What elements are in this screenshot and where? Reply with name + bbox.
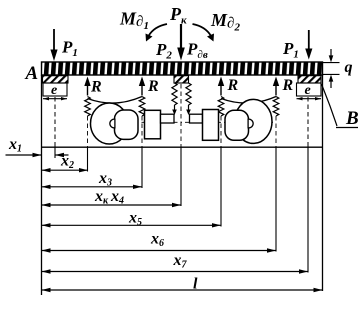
- spring left motor right: [139, 97, 145, 117]
- right support centerline dashed: [307, 97, 309, 147]
- central spring left: [172, 83, 177, 105]
- force P1 right arrow: [308, 30, 310, 50]
- dimension xk x4: [42, 204, 182, 206]
- central mount hatch block: [174, 76, 189, 83]
- svg-text:e: e: [51, 83, 57, 98]
- dimension x6: [42, 250, 277, 252]
- left support e-box: [43, 83, 67, 96]
- left support hatch: [43, 76, 69, 83]
- motor 2 body circle: [235, 99, 272, 143]
- dimension l: [42, 289, 323, 291]
- motor 1 bump: [110, 119, 115, 128]
- right support e-box: [297, 83, 322, 96]
- moment M1 arc: [149, 24, 168, 36]
- motor 2 shaft housing: [203, 110, 219, 141]
- spring right motor left: [218, 97, 224, 117]
- motor 1 shaft housing: [145, 110, 161, 139]
- motor 2 bump: [248, 119, 253, 128]
- reaction R1 arrow: [87, 84, 89, 96]
- right cradle arc: [221, 97, 276, 104]
- svg-text:A: A: [25, 63, 39, 84]
- q thickness dimension: [323, 62, 340, 64]
- svg-text:R: R: [90, 79, 102, 96]
- svg-text:R: R: [282, 77, 294, 94]
- motor 1 shaft stub: [161, 114, 175, 123]
- dimension x1: [6, 154, 42, 156]
- dimension x2: [42, 169, 89, 171]
- left e dimension: [43, 98, 67, 100]
- force P1 left arrow: [53, 29, 55, 52]
- right e dimension: [297, 98, 322, 100]
- main right vertical: [322, 75, 324, 291]
- motor 2 box: [225, 110, 249, 140]
- force Pk arrow: [180, 24, 182, 48]
- svg-text:e: e: [305, 83, 311, 98]
- reaction R2 arrow: [141, 84, 143, 96]
- spring right motor right: [273, 97, 279, 117]
- shaft axis dash-dot: [98, 121, 273, 123]
- central right down arrow: [188, 105, 190, 111]
- svg-text:R: R: [227, 77, 239, 94]
- node B leader: [322, 84, 338, 126]
- spring left motor left: [85, 97, 91, 117]
- left cradle arc: [88, 97, 143, 104]
- central centerline dashed: [180, 84, 182, 147]
- dimension x7: [42, 271, 309, 273]
- reaction R3 arrow: [220, 84, 222, 96]
- dimension x5: [42, 224, 222, 226]
- svg-text:q: q: [345, 59, 353, 76]
- motor 1 box: [115, 110, 139, 139]
- svg-text:l: l: [193, 276, 198, 293]
- motor 1 body circle: [91, 103, 129, 144]
- right support hatch: [298, 76, 321, 83]
- dashed drops below springs: [87, 116, 89, 147]
- frame bottom line: [42, 146, 323, 148]
- main left vertical: [41, 75, 43, 295]
- central left down arrow: [174, 105, 176, 111]
- svg-text:R: R: [147, 78, 159, 95]
- moment M2 arc: [193, 24, 212, 36]
- beam: [42, 62, 323, 75]
- svg-text:B: B: [345, 108, 359, 129]
- central spring right: [186, 83, 191, 105]
- motor 2 shaft stub: [190, 114, 203, 123]
- left support centerline dashed: [54, 97, 56, 147]
- extension verticals: [54, 147, 56, 158]
- dimension x3: [42, 186, 143, 188]
- reaction R4 arrow: [275, 84, 277, 96]
